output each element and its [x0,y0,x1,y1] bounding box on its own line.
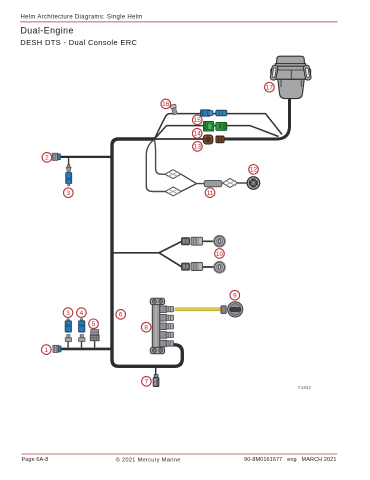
sleeve 11 [204,181,222,187]
callout 5 [89,319,99,329]
plug ribbed lower 10 [191,263,203,271]
svg-text:DESH DTS - Dual Console ERC: DESH DTS - Dual Console ERC [20,38,137,47]
wire bottom-left [60,348,113,351]
twisted pair diamond D1 [165,170,181,179]
svg-text:8: 8 [144,325,148,332]
wire from connector 2 [60,156,113,158]
resistor 3 bottom [65,319,71,342]
callout 4 [77,308,87,318]
callout 8 [141,322,151,332]
callout 15 [193,115,203,125]
callout 7 [142,377,152,387]
svg-text:2: 2 [45,155,49,162]
callout 10 [215,249,225,259]
connector 9 [221,302,243,317]
wire sleeve to diamond3 [222,182,248,184]
svg-text:Helm Architecture Diagrams: Si: Helm Architecture Diagrams: Single Helm [21,15,143,21]
footer rule [22,453,338,455]
wire blue row [155,114,283,139]
wire trunk [112,139,182,366]
yellow wire [175,307,222,311]
round connector lower 10 [214,261,226,273]
callout 17 [265,82,275,92]
wire loop B [155,140,166,174]
wire to round connectors 10 [112,241,215,267]
header rule [20,21,338,23]
wire diamond merge [181,174,205,191]
svg-text:3: 3 [66,190,70,197]
plug ribbed upper 10 [191,237,203,245]
callout 14 [192,129,202,139]
stub to resistor 4 [81,341,83,348]
svg-text:© 2021 Mercury Marine: © 2021 Mercury Marine [116,456,181,463]
connector 17 [270,56,311,98]
resistor 3 top [66,173,72,186]
block 8 port 5 [160,340,174,347]
svg-text:F1842: F1842 [298,385,311,390]
callout 9 [230,290,240,300]
block 8 port 1 [160,306,174,313]
svg-text:1: 1 [44,347,48,354]
stub to resistor 3 bottom [67,341,69,348]
connector 7 [153,375,159,387]
plug above resistor 3 top [66,165,71,172]
stub to connector 7 [155,366,157,375]
block 8 port 4 [160,332,174,339]
svg-text:3: 3 [66,310,70,317]
svg-text:Page 6A-8: Page 6A-8 [22,457,49,463]
twisted pair diamond D2 [165,187,181,196]
junction block 8 [150,298,164,353]
resistor 4 [79,319,85,342]
wire loop A [146,140,165,192]
block 8 port 3 [160,323,174,330]
svg-text:13: 13 [194,144,202,151]
callout 11 [205,188,215,198]
connector 5 [90,330,99,341]
svg-text:12: 12 [250,167,258,174]
connector pair green left [204,122,214,132]
svg-text:7: 7 [145,379,149,386]
callout 1 [42,345,52,355]
svg-text:17: 17 [266,85,274,92]
svg-text:16: 16 [162,101,170,108]
connector pair green right [216,122,227,130]
plug small upper 10 [182,238,190,245]
svg-text:10: 10 [216,251,224,258]
svg-text:Dual-Engine: Dual-Engine [21,26,74,36]
wire to connector 17 [224,99,290,139]
connector pair brown right [216,136,224,143]
stub to resistor 3 top [68,158,70,166]
connector 2 [52,153,60,160]
connector pair blue left [201,110,214,116]
connector 1 [53,345,61,352]
callout 3 bottom [63,308,73,318]
plug small lower 10 [182,263,190,270]
round connector upper 10 [214,235,226,247]
svg-text:6: 6 [119,312,123,319]
svg-text:14: 14 [194,131,202,138]
connector pair blue right [216,110,227,116]
connector 12 [247,177,260,190]
callout 13 [193,142,203,152]
twisted pair diamond D3 [223,179,238,188]
svg-text:5: 5 [92,321,96,328]
svg-text:15: 15 [194,117,202,124]
callout 6 [116,310,126,320]
svg-text:11: 11 [207,190,214,197]
svg-text:9: 9 [233,293,237,300]
wire green row [155,126,279,139]
connector pair brown left [203,135,213,144]
callout 16 [161,99,171,109]
svg-text:4: 4 [80,310,84,317]
stub to connector 5 [94,340,96,347]
callout 3 top [64,188,74,198]
connector 16 [170,104,178,115]
svg-text:90-8M0161677 eng MARCH 202: 90-8M0161677 eng MARCH 2021 [244,457,336,463]
callout 12 [249,165,259,175]
callout 2 [42,153,52,163]
block 8 port 2 [160,315,174,322]
wire brown row [155,138,204,140]
